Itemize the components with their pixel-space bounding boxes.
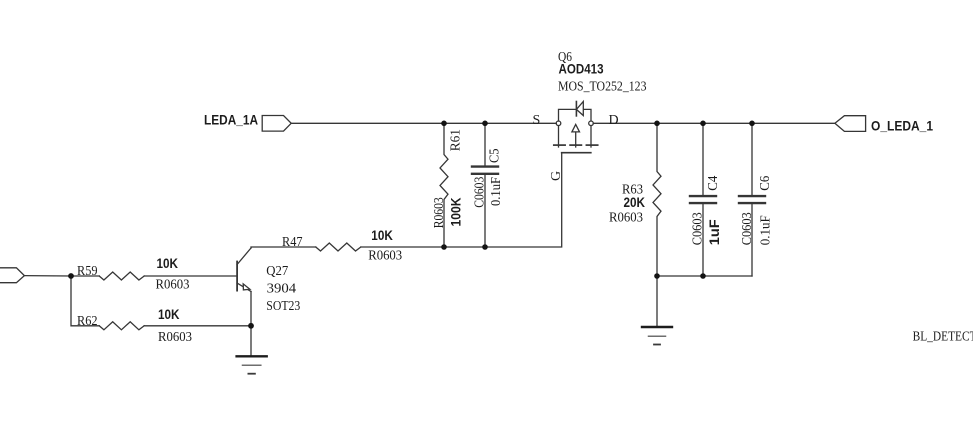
- svg-text:S: S: [533, 113, 541, 128]
- channel segment source: [554, 144, 565, 146]
- svg-text:R62: R62: [77, 314, 98, 329]
- svg-text:O_LEDA_1: O_LEDA_1: [871, 118, 933, 134]
- wire node A down to R62: [71, 276, 99, 326]
- capacitor C4: [690, 123, 716, 276]
- svg-text:LEDA_1A: LEDA_1A: [204, 112, 258, 128]
- capacitor C6: [739, 123, 765, 276]
- wire drain pin to body diode: [583, 109, 591, 121]
- wire left port to node A: [24, 275, 99, 277]
- port left edge input: [0, 268, 24, 283]
- resistor R61: [440, 123, 448, 247]
- svg-text:3904: 3904: [267, 282, 297, 297]
- body diode triangle: [576, 102, 583, 116]
- svg-text:BL_DETECT: BL_DETECT: [913, 330, 973, 345]
- svg-text:R0603: R0603: [609, 210, 643, 225]
- junction emitter node: [248, 323, 254, 329]
- svg-text:10K: 10K: [157, 255, 179, 271]
- bulk arrow head: [572, 124, 580, 131]
- channel segment bulk: [570, 144, 581, 146]
- junction bottom of R61: [441, 244, 447, 250]
- svg-text:C0603: C0603: [740, 212, 755, 245]
- body diode cathode bar: [575, 102, 577, 116]
- svg-text:0.1uF: 0.1uF: [759, 215, 774, 245]
- svg-text:R0603: R0603: [432, 197, 447, 228]
- svg-text:Q27: Q27: [266, 264, 288, 279]
- emitter lead: [237, 283, 251, 292]
- junction node A: [68, 273, 74, 279]
- base bar: [236, 262, 238, 291]
- svg-text:0.1uF: 0.1uF: [489, 177, 504, 206]
- svg-text:C0603: C0603: [691, 212, 706, 245]
- svg-text:G: G: [549, 171, 564, 181]
- wire LEDA_1A to MOSFET source pin: [291, 122, 556, 124]
- wire emitter down to ground: [250, 292, 252, 357]
- svg-text:R0603: R0603: [158, 330, 192, 345]
- svg-text:C6: C6: [758, 176, 773, 191]
- junction top of C6: [749, 121, 755, 127]
- svg-text:AOD413: AOD413: [559, 61, 604, 77]
- wire bottom rail R63/C4/C6: [657, 275, 752, 277]
- wire R62 to emitter node: [144, 325, 251, 327]
- svg-text:R61: R61: [449, 129, 464, 151]
- transistor Q6 P-MOSFET: [554, 102, 598, 153]
- wire MOSFET drain pin to O_LEDA_1: [593, 122, 835, 124]
- resistor R59: [99, 272, 144, 280]
- bulk arrow stem: [575, 132, 577, 148]
- wire gate net: R47 to R61/C5 bottoms to gate riser: [361, 153, 562, 247]
- transistor Q27 NPN: [237, 248, 251, 292]
- channel segment drain: [586, 144, 597, 146]
- port LEDA_1A: [262, 116, 291, 132]
- collector lead: [237, 248, 251, 265]
- ground right: [642, 327, 672, 345]
- junction top of R61: [441, 121, 447, 127]
- resistor R63: [653, 123, 661, 276]
- pin D circle: [589, 121, 594, 126]
- svg-text:R47: R47: [282, 235, 303, 250]
- source lead down: [558, 126, 560, 147]
- svg-text:MOS_TO252_123: MOS_TO252_123: [558, 80, 647, 95]
- port O_LEDA_1: [835, 116, 866, 132]
- drain lead down: [590, 126, 592, 147]
- gate bar: [562, 152, 591, 154]
- emitter arrow head: [243, 284, 250, 290]
- svg-text:D: D: [609, 113, 619, 128]
- junction bottom of C5: [482, 244, 488, 250]
- resistor R62: [99, 322, 144, 330]
- pin S circle: [556, 121, 561, 126]
- svg-text:R59: R59: [77, 264, 98, 279]
- svg-text:SOT23: SOT23: [266, 299, 300, 314]
- svg-text:C5: C5: [488, 149, 503, 164]
- junction bottom of R63: [654, 273, 660, 279]
- svg-text:10K: 10K: [371, 227, 393, 243]
- junction top of C5: [482, 121, 488, 127]
- svg-text:10K: 10K: [158, 306, 180, 322]
- resistor R47: [316, 243, 361, 251]
- svg-text:C4: C4: [706, 176, 721, 191]
- svg-text:R0603: R0603: [156, 277, 190, 292]
- ground left: [237, 356, 267, 373]
- svg-text:20K: 20K: [624, 194, 646, 210]
- junction top of C4: [700, 121, 706, 127]
- junction bottom of C4: [700, 273, 706, 279]
- wire ground drop right: [656, 276, 658, 327]
- capacitor C5: [472, 123, 498, 247]
- wire source pin to body diode: [559, 109, 577, 121]
- svg-text:100K: 100K: [448, 198, 464, 227]
- svg-text:1uF: 1uF: [706, 219, 722, 245]
- svg-text:R0603: R0603: [368, 249, 402, 264]
- junction top of R63: [654, 121, 660, 127]
- svg-text:C0603: C0603: [473, 177, 488, 208]
- wire R59 to Q27 base: [144, 275, 237, 277]
- wire collector to R47: [251, 247, 316, 248]
